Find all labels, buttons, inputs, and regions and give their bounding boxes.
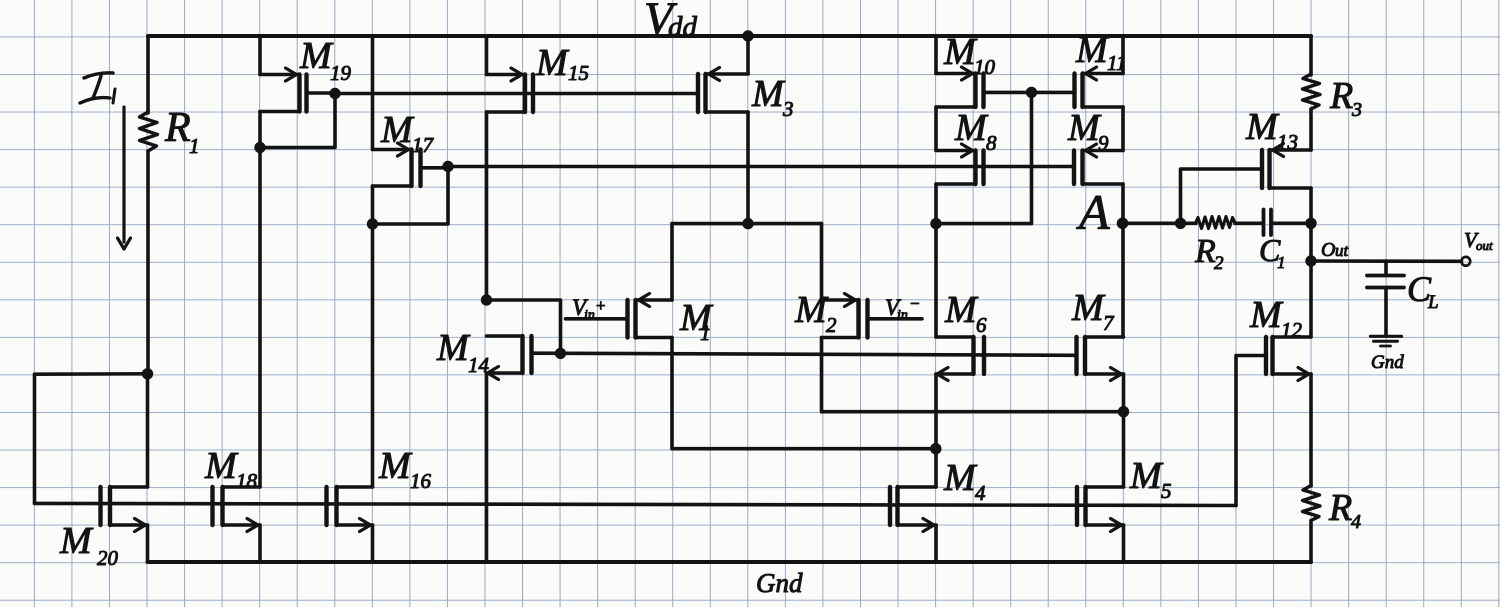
- junction node A: [1117, 218, 1129, 230]
- svg-text:11: 11: [1107, 51, 1126, 75]
- wire Out to CL: [1384, 261, 1388, 276]
- transistor M13: [1262, 144, 1311, 189]
- label M4: [943, 457, 986, 505]
- svg-text:6: 6: [976, 313, 987, 337]
- svg-text:M: M: [751, 73, 786, 115]
- label C1: [1259, 232, 1286, 272]
- wire node A to R2: [1123, 222, 1196, 226]
- wire C1 to output column: [1271, 222, 1311, 226]
- svg-text:10: 10: [974, 55, 996, 79]
- junction M17 gate node: [442, 161, 453, 172]
- wire M14 source to Gnd rail: [485, 373, 489, 562]
- wire Out line: [1311, 259, 1462, 263]
- transistor M19: [260, 68, 335, 112]
- junction M14 drain node: [481, 294, 492, 305]
- wire M8 drain to M6 drain: [934, 224, 938, 337]
- svg-text:16: 16: [410, 469, 432, 493]
- svg-text:1: 1: [1277, 253, 1286, 272]
- wire M10 drain to M8 source: [934, 107, 938, 151]
- svg-text:9: 9: [1098, 131, 1109, 155]
- svg-text:M: M: [59, 520, 94, 562]
- label M18: [204, 445, 258, 493]
- wire junction to M20 drain: [146, 374, 150, 487]
- wire M20 source to Gnd rail: [146, 525, 150, 562]
- wire M3 drain: [746, 112, 750, 224]
- svg-text:Gnd: Gnd: [1371, 352, 1404, 373]
- wire R3 to M13 source: [1309, 109, 1313, 150]
- label R4: [1328, 487, 1361, 533]
- svg-text:R: R: [1194, 233, 1216, 270]
- resistor R2: [1196, 217, 1236, 229]
- svg-text:M: M: [1067, 107, 1102, 149]
- wire M10-M11 gate link: [984, 91, 1075, 95]
- svg-text:4: 4: [975, 481, 986, 505]
- transistor M7: [1077, 337, 1124, 381]
- wire M2 source riser: [820, 224, 824, 300]
- svg-text:M: M: [944, 289, 979, 331]
- wire CL to ground: [1384, 288, 1388, 336]
- transistor M4: [890, 487, 936, 532]
- svg-text:8: 8: [986, 131, 997, 155]
- transistor M8: [936, 144, 984, 184]
- transistor M6: [936, 337, 984, 381]
- svg-text:R: R: [1328, 487, 1352, 529]
- transistor M3: [698, 68, 748, 113]
- capacitor CL: [1367, 276, 1404, 288]
- label M20: [59, 520, 119, 570]
- label R3: [1329, 75, 1362, 121]
- label M10: [943, 31, 996, 79]
- transistor M18: [213, 487, 261, 532]
- wire M12 gate: [1236, 356, 1266, 506]
- wire R1 to M20 drain junction: [146, 151, 150, 374]
- label M2: [794, 289, 837, 337]
- capacitor C1: [1264, 210, 1272, 236]
- svg-text:M: M: [943, 31, 978, 73]
- transistor M2: [822, 294, 923, 338]
- wire tail node to M4 drain: [934, 449, 938, 487]
- svg-text:15: 15: [568, 61, 589, 85]
- resistor R1: [140, 112, 158, 151]
- svg-text:R: R: [164, 105, 191, 151]
- label M8: [954, 107, 997, 155]
- junction M2/M5/M7 node: [1118, 406, 1129, 417]
- svg-text:Gnd: Gnd: [756, 568, 803, 598]
- svg-text:M: M: [1129, 455, 1164, 497]
- label M16: [378, 445, 432, 493]
- label R1: [164, 105, 200, 158]
- svg-text:17: 17: [412, 133, 435, 157]
- transistor M5: [1077, 487, 1124, 532]
- wire NMOS mirror gate bus: [35, 503, 1237, 505]
- junction M8 drain node: [930, 218, 941, 229]
- svg-text:20: 20: [97, 546, 119, 570]
- svg-text:R: R: [1329, 75, 1353, 117]
- wire M2 drain to tail: [822, 338, 1124, 412]
- wire PMOS mirror gate bus: [335, 92, 698, 96]
- wire Vdd to M19 source: [258, 36, 262, 75]
- wire cascode gate bus (M17-M8-M9): [448, 165, 1074, 169]
- wire M4 source to Gnd rail: [934, 525, 938, 562]
- label M14: [436, 327, 490, 377]
- wire node to M5 drain: [1122, 412, 1126, 487]
- svg-text:L: L: [1427, 292, 1439, 313]
- wire Vdd to M17 source: [371, 36, 375, 150]
- transistor M9: [1074, 144, 1123, 184]
- wire M15 drain to M14 drain: [485, 112, 489, 300]
- label R2: [1194, 233, 1224, 274]
- wire M11 drain to M9 source: [1121, 107, 1125, 151]
- label Vin+: [572, 295, 606, 323]
- transistor M15: [487, 68, 534, 112]
- svg-text:in: in: [584, 308, 595, 323]
- label M1: [679, 297, 714, 345]
- svg-text:−: −: [910, 294, 920, 313]
- label Vout: [1464, 228, 1493, 253]
- label CL: [1407, 269, 1439, 313]
- label Gnd (CL): [1371, 352, 1404, 373]
- label Out: [1321, 239, 1350, 261]
- wire M7 source to node: [1122, 374, 1126, 412]
- wire M14 drain-gate loop: [487, 300, 561, 353]
- wire input pair source rail: [672, 222, 822, 226]
- svg-text:M: M: [380, 109, 415, 151]
- wire M16 source to Gnd rail: [371, 525, 375, 562]
- wire R2 to C1: [1235, 222, 1264, 226]
- svg-text:M: M: [535, 42, 570, 84]
- svg-text:13: 13: [1277, 130, 1298, 154]
- wire M14 gate bus (M14-M6-M7): [532, 353, 1077, 355]
- wire Vdd to M10 source: [934, 36, 938, 74]
- label M6: [944, 289, 987, 337]
- wire M17 drain to M16 drain column: [371, 186, 375, 487]
- wire M8 drain: [934, 184, 938, 224]
- transistor M16: [327, 487, 373, 532]
- svg-text:M: M: [1245, 106, 1280, 148]
- svg-text:4: 4: [1351, 511, 1361, 533]
- svg-text:M: M: [1071, 287, 1106, 329]
- wire M1 source riser: [670, 224, 674, 300]
- svg-text:A: A: [1076, 184, 1110, 240]
- label M15: [535, 42, 589, 85]
- svg-text:M: M: [204, 445, 239, 487]
- junction M19 gate node: [329, 88, 340, 99]
- transistor M12: [1266, 337, 1311, 381]
- label M7: [1071, 287, 1115, 335]
- wire M19 gate to drain: [260, 94, 335, 148]
- svg-text:5: 5: [1161, 479, 1172, 503]
- svg-text:M: M: [1249, 294, 1284, 336]
- junction M10/M11 gate node: [1026, 87, 1037, 98]
- label M12: [1249, 294, 1303, 342]
- svg-text:M: M: [436, 327, 471, 369]
- current source arrow I1: [118, 107, 131, 249]
- wire Vdd to R1: [146, 36, 150, 113]
- wire M13 drain to C1 node: [1309, 188, 1313, 223]
- svg-text:2: 2: [1214, 253, 1224, 274]
- svg-text:1: 1: [189, 134, 200, 158]
- svg-text:in: in: [897, 308, 908, 323]
- label M13: [1245, 106, 1298, 154]
- wire M1 drain to tail: [672, 338, 936, 449]
- resistor R4: [1303, 486, 1321, 521]
- wire Out node to M12 drain: [1309, 261, 1313, 337]
- junction input pair source node: [742, 218, 753, 229]
- svg-text:7: 7: [1103, 311, 1115, 335]
- label M5: [1129, 455, 1172, 503]
- svg-text:M: M: [943, 457, 978, 499]
- svg-text:M: M: [794, 289, 829, 331]
- label Gnd (bottom rail): [756, 568, 803, 598]
- wire Vdd to R3: [1309, 36, 1313, 75]
- label M3: [751, 73, 794, 121]
- wire M6 source to tail node: [934, 374, 938, 449]
- wire M19 drain to M18 drain column: [258, 112, 262, 488]
- wire Vdd to M3 source: [746, 36, 750, 74]
- svg-text:1: 1: [700, 321, 711, 345]
- wire Vdd to M15 source: [485, 36, 489, 75]
- transistor M20: [101, 487, 148, 532]
- wire M9 drain to node A: [1121, 184, 1125, 223]
- label Vdd: [644, 0, 698, 45]
- junction M14 gate node: [555, 348, 566, 359]
- wire M18 source to Gnd rail: [258, 525, 262, 562]
- transistor M1: [566, 294, 673, 338]
- transistor M10: [936, 67, 984, 107]
- junction Out node: [1305, 255, 1316, 266]
- transistor M17: [373, 143, 449, 186]
- wire M17 gate to drain: [373, 167, 449, 225]
- svg-text:+: +: [596, 296, 606, 315]
- wire C1 node to Out node: [1309, 223, 1313, 261]
- wire Vdd to M11 source: [1121, 36, 1125, 74]
- terminal Vout: [1461, 257, 1470, 266]
- svg-text:M: M: [1075, 29, 1110, 71]
- ground symbol (CL): [1371, 336, 1402, 346]
- junction M19 drain-gate: [254, 142, 265, 153]
- svg-text:dd: dd: [668, 11, 698, 43]
- svg-text:M: M: [954, 107, 989, 149]
- svg-text:12: 12: [1281, 318, 1303, 342]
- wire M20 gate loop: [35, 374, 148, 504]
- transistor M14: [487, 336, 532, 380]
- junction C1 / M13 drain: [1305, 218, 1316, 229]
- label Vin-: [885, 294, 920, 323]
- svg-text:3: 3: [782, 97, 794, 121]
- wire M12 source to R4: [1309, 374, 1313, 486]
- svg-text:M: M: [299, 35, 334, 77]
- svg-text:O: O: [1321, 239, 1335, 261]
- wire Vdd rail: [148, 34, 1311, 38]
- junction M1/M4/M6 node: [930, 443, 941, 454]
- junction M17 drain: [367, 218, 378, 229]
- svg-text:ut: ut: [1335, 241, 1350, 260]
- junction M13 gate tap: [1175, 218, 1186, 229]
- svg-text:3: 3: [1351, 99, 1362, 121]
- svg-text:M: M: [378, 445, 413, 487]
- svg-text:18: 18: [236, 469, 258, 493]
- label M17: [380, 109, 435, 157]
- transistor M11: [1075, 67, 1124, 107]
- svg-text:out: out: [1476, 238, 1493, 253]
- label node A: [1076, 184, 1110, 240]
- wire gate node to M8 drain: [936, 92, 1032, 223]
- label M19: [299, 35, 352, 85]
- junction Vdd / M3 source column: [742, 30, 753, 41]
- svg-text:19: 19: [330, 61, 352, 85]
- svg-text:2: 2: [826, 313, 837, 337]
- wire M5 source to Gnd rail: [1122, 525, 1126, 562]
- resistor R3: [1303, 74, 1321, 109]
- wire Gnd rail: [148, 560, 1312, 564]
- junction R1 / M20 gate loop: [142, 368, 153, 379]
- label M11: [1075, 29, 1126, 75]
- wire node A to M7 drain: [1121, 223, 1125, 337]
- label I1: [80, 73, 115, 103]
- wire M13 gate: [1181, 169, 1263, 223]
- label M9: [1067, 107, 1109, 155]
- wire R4 to Gnd rail: [1309, 521, 1313, 563]
